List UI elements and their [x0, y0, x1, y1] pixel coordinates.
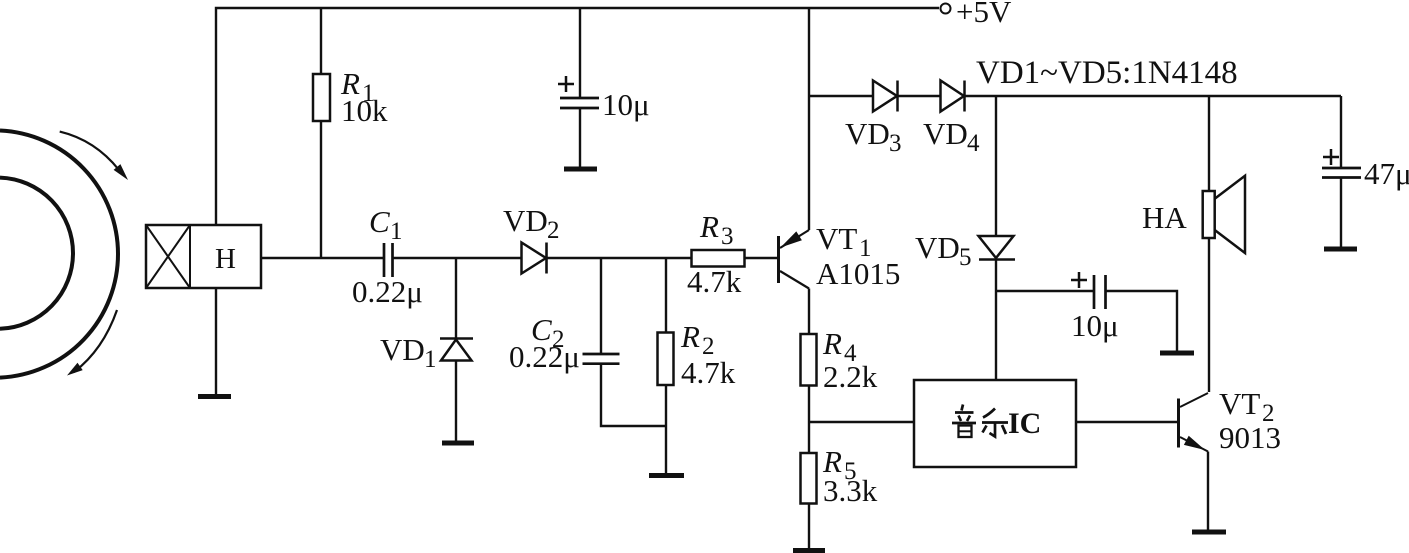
svg-text:VD: VD: [503, 203, 548, 238]
svg-text:H: H: [215, 243, 236, 275]
glyph yin: [952, 405, 976, 438]
wire H output: [261, 257, 384, 260]
rotating magnet outer arc: [0, 131, 118, 378]
ground under 47u: [1324, 247, 1357, 252]
label C2 value: [509, 312, 580, 374]
svg-text:1: 1: [424, 346, 437, 373]
rotation arrow top: [60, 132, 128, 180]
svg-text:5: 5: [959, 244, 972, 271]
label VD5: [915, 230, 972, 271]
svg-text:VD: VD: [923, 116, 968, 151]
ground under 10u: [564, 167, 597, 172]
wire R4/R5 junction to music IC: [809, 421, 914, 423]
svg-text:IC: IC: [1008, 407, 1041, 440]
svg-text:HA: HA: [1142, 200, 1187, 235]
label C1 value: [352, 204, 423, 309]
svg-text:3: 3: [889, 130, 902, 157]
diode VD1: [440, 258, 473, 442]
capacitor 10u top: [558, 8, 599, 168]
label VD2: [503, 203, 560, 244]
+5V power rail wire: [216, 8, 939, 225]
resistor R5: [801, 453, 817, 549]
label VT2 9013: [1219, 386, 1281, 455]
svg-text:2: 2: [547, 217, 560, 244]
Hall sensor H: [146, 225, 261, 288]
ground under H: [198, 394, 231, 399]
diode VD2: [522, 243, 692, 274]
svg-text:+5V: +5V: [956, 0, 1012, 29]
svg-text:10μ: 10μ: [1071, 308, 1119, 343]
wire VD3 branch: [809, 95, 873, 97]
resistor R3: [692, 250, 779, 267]
rotating magnet inner arc: [0, 178, 73, 329]
svg-text:VD1~VD5:1N4148: VD1~VD5:1N4148: [976, 55, 1238, 91]
svg-text:R: R: [680, 319, 700, 354]
capacitor 10u right: [996, 272, 1177, 352]
diode VD3: [873, 81, 941, 112]
svg-text:C: C: [369, 204, 390, 239]
svg-text:VD: VD: [380, 332, 425, 367]
resistor R1: [313, 8, 330, 258]
svg-text:VT: VT: [816, 221, 857, 256]
svg-text:9013: 9013: [1219, 420, 1281, 455]
diode VD5: [979, 96, 1016, 380]
ground under VT2: [1192, 530, 1226, 535]
svg-text:A1015: A1015: [816, 256, 900, 291]
capacitor C1: [384, 243, 522, 277]
svg-text:2.2k: 2.2k: [823, 359, 878, 394]
resistor R4: [801, 334, 817, 453]
ground under VD1: [442, 441, 474, 446]
svg-text:VT: VT: [1219, 386, 1260, 421]
resistor R2: [658, 258, 674, 475]
label R4 value: [822, 326, 878, 394]
svg-text:VD: VD: [915, 230, 960, 265]
svg-text:10μ: 10μ: [602, 87, 650, 122]
+5V terminal: [941, 4, 951, 14]
label R3 value: [687, 209, 742, 299]
svg-text:0.22μ: 0.22μ: [509, 339, 580, 374]
ground under R5: [793, 548, 825, 553]
transistor VT2: [1179, 393, 1209, 531]
speaker HA: [1203, 96, 1245, 392]
wire H bottom to ground: [215, 288, 217, 396]
music IC block: [914, 380, 1076, 467]
label R2 value: [680, 319, 736, 390]
svg-text:R: R: [822, 326, 842, 361]
label VD1: [380, 332, 437, 373]
label VD4: [923, 116, 980, 157]
svg-text:4.7k: 4.7k: [687, 264, 742, 299]
svg-text:1: 1: [390, 218, 403, 245]
glyph yue: [982, 409, 1008, 437]
music IC label: drawn glyphs yin yue + IC: [952, 405, 1041, 441]
svg-text:10k: 10k: [341, 93, 388, 128]
svg-text:VD: VD: [845, 116, 890, 151]
label VT1 A1015: [816, 221, 900, 291]
diode VD4: [941, 81, 1342, 112]
ground under 10u right: [1160, 351, 1194, 356]
wire music IC output: [1076, 421, 1178, 423]
svg-text:0.22μ: 0.22μ: [352, 274, 423, 309]
ground under R2: [649, 473, 684, 478]
transistor VT1: [779, 8, 810, 334]
rotation arrow bottom: [67, 310, 117, 376]
svg-text:R: R: [699, 209, 719, 244]
capacitor C2: [583, 258, 667, 426]
label R1 value: [340, 66, 388, 128]
svg-text:3: 3: [721, 223, 734, 250]
svg-text:4: 4: [967, 130, 980, 157]
svg-text:3.3k: 3.3k: [823, 473, 878, 508]
capacitor 47u: [1322, 96, 1361, 248]
svg-text:47μ: 47μ: [1364, 156, 1409, 191]
label VD3: [845, 116, 902, 157]
label R5 value: [822, 444, 878, 508]
svg-text:4.7k: 4.7k: [681, 355, 736, 390]
